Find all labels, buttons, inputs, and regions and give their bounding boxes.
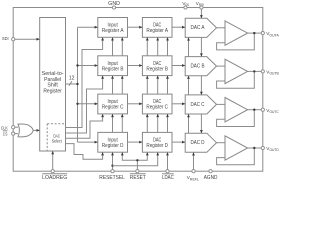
control wire input registers col x=122.3 gap B-C [121,76,123,95]
junction output B [253,70,255,72]
svg-text:Register B: Register B [146,66,168,72]
RESETSEL wire to input registers [112,152,114,171]
select D wire [66,144,103,160]
pin LOADREG [51,170,54,173]
svg-text:Register C: Register C [102,105,124,111]
control wire DAC registers col x=167.5 gap C-D [167,114,169,132]
wire input register B to DAC register B [128,65,143,67]
op-amp D feedback wire [217,148,255,165]
op-amp buffer D [225,136,248,160]
svg-text:DAC A: DAC A [191,25,205,31]
LDAC wire to DAC registers [167,152,169,171]
wire LOADREG to DAC select [52,151,54,171]
pin RESETSEL [111,170,114,173]
RESET pin wire [136,160,138,171]
svg-text:VREFL: VREFL [187,175,199,181]
bus width slash [69,81,72,86]
op-amp B feedback wire [217,71,255,88]
DAC register B block [142,56,172,76]
select A wire [66,37,103,127]
control wire DAC registers col x=167.5 gap B-C [167,76,169,95]
wire op-amp A output to VOUTA pin [248,32,263,34]
pin CLK [12,126,15,129]
control wire DAC registers col x=147.3 gap B-C [146,76,148,95]
wire op-amp C output to VOUTC pin [248,109,263,111]
pin VOUTD [261,146,264,149]
control wire DAC registers col x=157.7 gap C-D [157,114,159,132]
DAC register A block [142,18,172,38]
VREFL line DAC C to DAC B [188,76,190,95]
select C wire [66,114,103,138]
control wire input registers col x=122.3 gap C-D [121,114,123,132]
control wire DAC registers col x=147.3 gap A-B [146,37,148,56]
pin VREFL [192,170,195,173]
control wire DAC registers col x=147.3 gap C-D [146,114,148,132]
svg-text:Register B: Register B [102,66,124,72]
DAC A block [185,18,216,37]
input register A block [98,18,128,38]
wire input register A to DAC register A [128,26,143,28]
wire DAC A to op-amp A [217,27,226,29]
control wire DAC registers col x=167.5 gap A-B [167,37,169,56]
junction RESET [136,159,138,161]
svg-text:VDD: VDD [182,1,189,7]
op-amp buffer B [225,59,248,83]
pin VOUTB [261,70,264,73]
DAC C block [185,95,216,114]
DAC B block [185,57,216,76]
chip boundary [13,8,263,172]
wire input register D to DAC register D [128,141,143,143]
junction bus row C [76,103,78,105]
svg-text:SDI: SDI [2,36,9,42]
input register C block [98,94,128,114]
DAC D block [185,133,216,152]
control wire DAC registers col x=157.7 gap A-B [157,37,159,56]
pin RESET [136,170,139,173]
wire data bus to input register D [78,141,98,143]
select B wire [66,76,103,133]
serial-to-parallel shift register block [40,18,66,152]
svg-text:Register: Register [43,88,62,94]
svg-text:RESETSEL: RESETSEL [99,175,125,181]
wire DAC register D to DAC D [172,141,185,143]
pin VOUTA [261,31,264,34]
pin GND [112,6,115,9]
wire input register C to DAC register C [128,103,143,105]
VREFH line from pin to DAC A [200,8,202,19]
svg-text:VREFH: VREFH [196,1,205,7]
svg-text:Select: Select [52,138,62,144]
wire data bus to input register A [78,26,98,28]
svg-text:LDAC: LDAC [162,175,174,181]
svg-text:LOADREG: LOADREG [42,175,67,181]
svg-text:DAC B: DAC B [191,64,205,70]
DAC register D block [142,132,172,152]
svg-text:GND: GND [108,1,120,7]
svg-text:DAC C: DAC C [191,102,205,108]
VREFH line DAC C to DAC D [200,114,202,133]
op-amp buffer C [225,98,248,122]
wire DAC register B to DAC B [172,65,185,67]
svg-text:12: 12 [69,75,75,81]
RESETSEL rail wire to DAC registers [113,152,158,166]
pin SDI [12,38,15,41]
VREFL line DAC B to DAC A [188,37,190,56]
junction output C [253,109,255,111]
svg-text:VOUTD: VOUTD [266,146,279,152]
input register B block [98,56,128,76]
svg-text:AGND: AGND [204,175,218,181]
wire CLK to gate [13,126,18,128]
wire data bus to input register C [78,103,98,105]
pin VREFH [200,6,203,9]
wire CS to gate [13,133,18,135]
pin AGND [209,170,212,173]
op-amp buffer A [225,21,248,45]
junction RESETSEL [111,165,113,167]
junction output A [253,32,255,34]
control wire input registers col x=112.5 gap A-B [112,37,114,56]
junction bus tap [76,83,78,85]
svg-text:VOUTC: VOUTC [266,108,279,114]
svg-text:Register A: Register A [102,28,124,34]
input register D block [98,132,128,152]
wire DAC register C to DAC C [172,103,185,105]
wire DAC C to op-amp C [217,103,226,105]
op-amp C feedback wire [217,110,255,127]
RESET rail wire [122,152,147,160]
svg-text:VOUTA: VOUTA [266,31,279,37]
VREFL line from pin to DAC D [193,152,195,171]
wire op-amp B output to VOUTB pin [248,70,263,72]
control wire DAC registers col x=157.7 gap B-C [157,76,159,95]
wire op-amp D output to VOUTD pin [248,147,263,149]
DAC register C block [142,94,172,114]
bus tap from shift register with width 12 [66,83,78,85]
pin VDD [184,6,187,9]
control wire input registers col x=112.5 gap B-C [112,76,114,95]
control wire input registers col x=122.3 gap A-B [121,37,123,56]
svg-text:VOUTB: VOUTB [266,70,279,76]
svg-text:Register A: Register A [146,28,168,34]
junction output D [253,147,255,149]
wire DAC D to op-amp D [217,142,226,144]
svg-text:Register D: Register D [102,143,124,149]
overline CS [3,130,8,132]
svg-text:RESET: RESET [130,175,146,181]
junction bus row B [76,64,78,66]
wire data bus to input register B [78,65,98,67]
svg-text:DAC D: DAC D [191,140,205,146]
svg-text:Register D: Register D [146,143,168,149]
12-bit data bus vertical [77,27,79,142]
wire DAC register A to DAC A [172,26,185,28]
svg-text:CS: CS [3,132,8,138]
wire gate to shift register [33,129,40,131]
VREFL line DAC D to DAC C [188,114,190,133]
op-amp A feedback wire [217,33,255,50]
VREFH line DAC A to DAC B [200,37,202,56]
VREFH line DAC B to DAC C [200,76,202,95]
pin VOUTC [261,108,264,111]
wire SDI to shift register [13,38,40,40]
wire DAC B to op-amp B [217,65,226,67]
DAC Select block (dashed) [47,123,65,125]
pin LDAC [166,170,169,173]
gate U1 [18,124,33,137]
svg-text:Register C: Register C [146,105,168,111]
control wire input registers col x=112.5 gap C-D [112,114,114,132]
pin CS [12,132,15,135]
